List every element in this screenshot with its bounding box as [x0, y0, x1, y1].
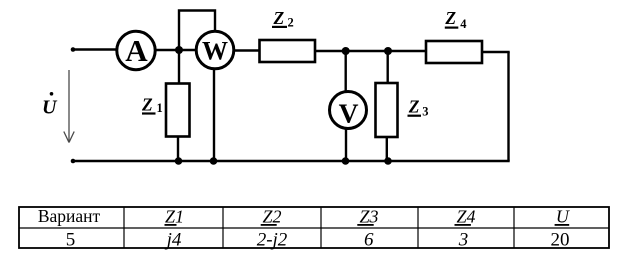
node junction top-3 (Z3 tap) — [384, 47, 392, 55]
svg-text:2: 2 — [288, 15, 294, 29]
svg-text:3: 3 — [422, 104, 428, 118]
wire junction to Z1 — [178, 50, 180, 84]
node bottom W — [210, 157, 218, 165]
wire wattmeter bottom to rail — [213, 69, 215, 162]
wire Z2 to Z4 — [315, 50, 427, 52]
table grid — [19, 207, 609, 248]
node bottom V — [342, 157, 350, 165]
svg-text:A: A — [125, 33, 148, 68]
impedance Z2 — [260, 40, 316, 62]
label Z4 — [444, 8, 467, 31]
table header Z1 — [165, 206, 185, 226]
impedance Z4 — [426, 41, 482, 63]
svg-text:Вариант: Вариант — [38, 206, 101, 226]
wire terminal to ammeter — [73, 48, 117, 50]
bottom terminal node — [71, 159, 76, 164]
wire Z3 to bottom rail — [386, 137, 388, 161]
wattmeter W1 — [196, 31, 234, 69]
table header U — [555, 206, 570, 226]
wire right vertical — [507, 52, 509, 161]
table header Z3 — [357, 206, 378, 226]
impedance Z3 — [376, 83, 398, 137]
wire ammeter to wattmeter — [155, 49, 197, 51]
wire junction to Z3 — [387, 51, 389, 84]
node junction top-1 — [175, 46, 183, 54]
svg-text:U: U — [42, 97, 58, 119]
svg-text:W: W — [202, 37, 228, 66]
svg-text:j4: j4 — [164, 230, 182, 251]
wire Z1 to bottom rail — [177, 137, 179, 162]
svg-text:4: 4 — [460, 17, 467, 31]
table header Z2 — [261, 206, 282, 226]
table header Z4 — [455, 206, 476, 226]
svg-text:1: 1 — [157, 101, 163, 115]
svg-text:Z1: Z1 — [165, 206, 184, 226]
svg-text:Z4: Z4 — [456, 206, 475, 226]
voltmeter V1 — [330, 92, 367, 129]
wire Z4 to right corner — [482, 51, 510, 53]
svg-text:5: 5 — [66, 230, 76, 251]
node bottom Z3 — [384, 157, 392, 165]
wire wattmeter voltage-coil loop — [179, 11, 215, 51]
label Z2 — [272, 8, 294, 29]
label Z1 — [141, 94, 163, 115]
svg-text:20: 20 — [551, 230, 570, 251]
wire bottom rail — [73, 160, 510, 162]
wire junction to voltmeter — [345, 51, 347, 91]
svg-text:Z: Z — [444, 8, 456, 28]
label Z3 — [408, 96, 429, 118]
svg-text:U: U — [556, 206, 570, 226]
svg-text:Z: Z — [141, 94, 153, 114]
source voltage arrow U — [64, 70, 74, 143]
wire voltmeter to bottom rail — [345, 129, 347, 161]
svg-text:V: V — [339, 98, 359, 129]
svg-text:Z: Z — [408, 96, 420, 116]
label U dotted — [42, 92, 58, 119]
svg-text:Z3: Z3 — [359, 206, 378, 226]
impedance Z1 — [166, 84, 190, 137]
svg-text:2-j2: 2-j2 — [257, 230, 288, 251]
ammeter A1 — [117, 31, 155, 69]
node bottom Z1 — [175, 157, 183, 165]
svg-text:6: 6 — [364, 230, 374, 251]
node junction top-2 (voltmeter tap) — [342, 47, 350, 55]
svg-text:3: 3 — [458, 230, 469, 251]
top terminal node — [71, 47, 76, 52]
svg-text:Z: Z — [273, 8, 285, 28]
svg-text:Z2: Z2 — [262, 206, 281, 226]
wire wattmeter to Z2 — [234, 49, 261, 51]
